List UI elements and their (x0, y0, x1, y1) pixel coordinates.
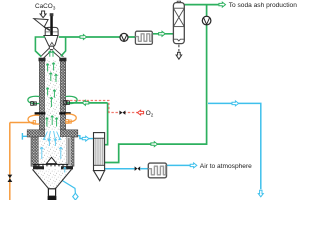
vessel cooler pencil column (94, 133, 105, 181)
wire green main line cyclone to scrubber (59, 36, 136, 38)
vessel scrubber column (173, 1, 184, 43)
wire green recycle vertical A down to cooler (103, 103, 108, 145)
vessel cyclone cup (44, 36, 58, 47)
valve V1 orange line hourglass valve (8, 175, 13, 182)
wire cyan exchanger to atmosphere (166, 164, 190, 166)
svg-text:Air to atmosphere: Air to atmosphere (200, 163, 252, 170)
arrow hollow green arrow on recycle pair pointing left (82, 100, 89, 105)
wire funnel spout (44, 27, 50, 30)
component heat exchanger HX1 top (135, 31, 152, 44)
wire green burner ring arc left (28, 96, 40, 103)
node cyan drain diamond (73, 193, 78, 200)
node vessel bottom band left (33, 166, 44, 169)
valve V2 O2 bowtie valve (119, 111, 125, 115)
wire green wing left (35, 37, 45, 57)
cyclone feed bin (45, 27, 58, 35)
pump fan blower P1 on main line (120, 33, 128, 41)
wire orange burner ring arc left (28, 115, 39, 124)
vessel fluid-bed cooler right wall (66, 137, 74, 166)
node cooler solids dipleg grey bar (67, 138, 70, 166)
vessel fluid-bed cooler left wall (31, 137, 39, 166)
node capped cyan stub nozzle left (22, 133, 31, 140)
wire green recycle pair horizontal into riser (66, 102, 108, 104)
vessel fluid-bed cooler interior (39, 130, 67, 166)
wire orange supply horizontal to riser nozzle (10, 122, 35, 124)
node riser wall cap right redraw (59, 58, 66, 61)
node flange bar left (35, 112, 46, 114)
arrow cyan flow arrows inside fluid-bed cooler (40, 131, 66, 173)
arrow hollow cyan arrow air to atmosphere (190, 163, 197, 168)
node green ring nozzle right (64, 101, 70, 105)
svg-text:To soda ash production: To soda ash production (229, 2, 298, 9)
wire green exchanger outlet to scrubber (152, 33, 173, 35)
node feed standpipe (50, 16, 53, 35)
wire cyan air line to atmosphere right (208, 103, 261, 189)
wire cyan cone drain line (53, 175, 76, 194)
wire green scrubber top line to soda ash (184, 4, 219, 6)
vessel cooler shoulder slab right (60, 130, 78, 137)
node green ring nozzle left (31, 102, 37, 106)
wire orange supply vertical line (9, 123, 11, 201)
arrow green flow arrows inside riser (46, 51, 59, 127)
vessel discharge cone (33, 169, 72, 188)
node orange ring nozzle left (33, 121, 35, 125)
arrow hollow grey arrow down from scrubber (176, 52, 182, 59)
valve V3 cyan line bowtie valve (135, 166, 141, 171)
node discharge neck (48, 189, 55, 196)
wire dashed scrubber bottom line (178, 45, 180, 53)
arrow hollow green arrow before scrubber (159, 31, 166, 36)
component cyclone leg left (42, 50, 50, 58)
node riser wall top cap right (59, 58, 66, 61)
wire cyan valve to exchanger (140, 168, 148, 170)
svg-text:O2: O2 (146, 110, 154, 117)
vessel riser interior (45, 61, 60, 131)
arrow hollow cyan arrow on connector (82, 136, 89, 141)
vessel riser right wall (60, 61, 66, 131)
wire cyan vessel to cooler connector (72, 136, 93, 139)
wire orange burner ring arc right (66, 114, 77, 122)
node rotary valve black band (48, 196, 57, 200)
node feed standpipe cap (50, 13, 54, 16)
component feed funnel (34, 19, 48, 27)
node flange bar right (59, 112, 70, 114)
node deflector cone triangle (46, 157, 56, 163)
node cyclone neck (49, 46, 53, 49)
component heat exchanger HX2 bottom (148, 163, 166, 178)
node orange ring nozzle right (66, 120, 72, 124)
arrow hollow green arrow to soda ash production (219, 2, 226, 7)
wire green wing right (61, 37, 66, 56)
arrow hollow green arrow on main line (80, 35, 87, 40)
pump fan blower P2 on vertical line (202, 16, 211, 25)
wire green vertical B with long bottom return (105, 5, 207, 163)
svg-text:CaCO3: CaCO3 (35, 3, 56, 11)
arrow hollow cyan arrow pointing down at bottom right (258, 190, 263, 197)
vessel cooler shoulder slab left (27, 130, 45, 137)
vessel riser left wall (39, 61, 45, 131)
node distributor grid plate (33, 164, 68, 166)
arrow hollow CaCO3 feed arrow down (40, 11, 46, 18)
wire cyan cooler outlet line (105, 168, 135, 170)
wire green burner ring arc right (66, 96, 78, 103)
arrow hollow green arrow on bottom return pointing right (151, 142, 158, 147)
arrow hollow cyan arrow on top air line (232, 101, 239, 106)
component cyclone leg right (53, 50, 62, 58)
node feed bin seam (45, 31, 58, 33)
arrow hollow red O2 arrow pointing left (137, 110, 143, 115)
node riser wall cap left redraw (39, 58, 46, 61)
node vessel bottom band right (61, 166, 73, 169)
node cyclone cup triangle mark (50, 42, 53, 45)
node riser wall top cap left (39, 58, 46, 61)
wire O2 red dashed line (66, 101, 137, 113)
